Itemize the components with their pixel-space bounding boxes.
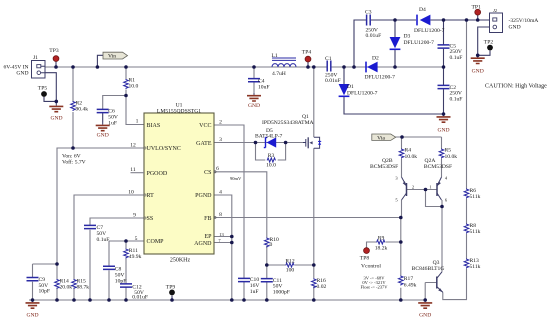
junction node Via label (400, 135, 404, 139)
wire C9 tap (33, 263, 58, 265)
wire R1 branch from rail (125, 67, 127, 79)
wire TP4 stub (307, 62, 309, 67)
wire Q3 emitter to R13 chain (443, 269, 467, 300)
svg-text:10.0: 10.0 (266, 162, 276, 168)
svg-text:CAUTION: High Voltage: CAUTION: High Voltage (485, 84, 547, 90)
svg-text:50V: 50V (97, 231, 107, 237)
svg-text:90mV: 90mV (230, 176, 242, 181)
wire R15 bottom (73, 288, 75, 301)
svg-text:100: 100 (286, 268, 295, 274)
ground at C4 (247, 93, 261, 109)
svg-text:R13: R13 (470, 258, 480, 264)
net label Via (mirror supply) (372, 134, 396, 141)
test point TP5 (38, 86, 48, 97)
capacitor C1 250V 0.01uF (series) (325, 56, 341, 84)
capacitor C5 250V 0.1uF (438, 43, 463, 61)
svg-text:Vcontrol: Vcontrol (361, 264, 381, 270)
svg-text:D3: D3 (404, 34, 411, 40)
svg-text:TP9: TP9 (166, 285, 176, 291)
junction dots bottom rail (31, 298, 35, 302)
wire RT net (74, 195, 144, 279)
svg-text:BCM53DSF: BCM53DSF (370, 164, 398, 170)
wire J1 pin2 to GND (41, 73, 56, 104)
junction node TP5/J1 gnd (55, 100, 59, 104)
svg-text:8: 8 (219, 212, 222, 218)
wire TP9 stub (171, 296, 173, 301)
wire R12 left (267, 264, 286, 266)
wire FB node down through R17 (400, 218, 402, 301)
op-amp U1 LM5155QDSSTG1 body (144, 103, 214, 264)
svg-text:49.9k: 49.9k (129, 254, 142, 260)
svg-text:DFLU1200-7: DFLU1200-7 (347, 90, 378, 96)
svg-text:6.49k: 6.49k (404, 283, 417, 289)
svg-text:3: 3 (219, 137, 222, 143)
svg-text:TP3: TP3 (49, 48, 59, 54)
svg-text:4.7uH: 4.7uH (272, 71, 286, 77)
svg-text:R12: R12 (285, 259, 295, 265)
wire TP1 stub (477, 15, 479, 20)
wire Q2 base tie (407, 190, 443, 207)
svg-text:EP: EP (204, 234, 212, 240)
connector J2 (490, 8, 503, 33)
junction nodes gate network (254, 141, 258, 145)
wire PGOOD stub (131, 172, 145, 174)
junction node C9 tap (55, 262, 59, 266)
svg-text:1000pF: 1000pF (273, 289, 290, 295)
net label Vin (input) (103, 52, 128, 59)
diode D1 DFLU1200-7 (339, 84, 378, 96)
ground at C2/C5 chain (437, 114, 451, 134)
svg-text:10uF: 10uF (258, 84, 270, 90)
wire charge-pump rail y=67 right of C1 (332, 66, 444, 68)
capacitor C6 50V 1uF (97, 108, 118, 126)
wire R3 parallel loop (256, 143, 286, 161)
svg-text:13: 13 (219, 232, 224, 237)
wire TP5 stub (44, 97, 56, 102)
svg-text:VCC: VCC (199, 123, 211, 129)
junction nodes Q2 mirror (424, 188, 428, 192)
junction nodes FB and R9 (399, 216, 403, 220)
resistor R1 10.0 (124, 78, 139, 90)
wire UVLO/SYNC net (57, 148, 144, 279)
wire R8 R6 segment (466, 199, 468, 224)
svg-text:GND: GND (472, 69, 484, 75)
capacitor C8 50V 10pF (103, 266, 126, 285)
wire R4 legs (401, 137, 403, 177)
capacitor C7 50V 0.1uF (84, 225, 109, 243)
wire SS net with C7 (90, 218, 144, 300)
wire D1 legs and line to GND (344, 67, 444, 114)
svg-text:10: 10 (128, 190, 134, 196)
wire C6 branch (103, 96, 126, 110)
capacitor C9 50V 10pF (27, 277, 51, 295)
test point TP4 (302, 50, 312, 62)
svg-text:DFLU1200-7: DFLU1200-7 (414, 28, 445, 34)
transistor Q1 IPD5N25S3438ATMA nmos (262, 114, 321, 148)
svg-text:AGND: AGND (194, 241, 212, 247)
svg-text:R9: R9 (378, 236, 385, 242)
wire switch node Q1 drain (313, 67, 315, 137)
svg-text:UVLO/SYNC: UVLO/SYNC (147, 146, 181, 152)
wire R16 bottom (313, 286, 315, 300)
svg-text:BAT54LP-7: BAT54LP-7 (255, 133, 283, 139)
svg-text:R17: R17 (404, 276, 414, 282)
svg-text:DFLU1200-7: DFLU1200-7 (365, 75, 396, 81)
resistor R6 511k (464, 188, 480, 200)
test point TP2 (484, 40, 494, 51)
svg-text:BC846BLT1G: BC846BLT1G (412, 266, 445, 272)
svg-text:1uF: 1uF (250, 289, 259, 295)
svg-text:IPD5N25S3438ATMA: IPD5N25S3438ATMA (262, 120, 314, 126)
diode D4 DFLU1200-7 (414, 7, 445, 34)
svg-text:TP4: TP4 (302, 50, 312, 56)
svg-text:0.01uF: 0.01uF (325, 78, 341, 84)
wire R14 bottom (56, 288, 58, 301)
svg-text:10pF: 10pF (39, 289, 51, 295)
wire J2 pin2 to GND (478, 27, 490, 55)
wire AGND stub (214, 242, 232, 244)
junction dots input rail (54, 65, 58, 69)
svg-text:5: 5 (135, 236, 138, 242)
resistor R14 20.0k (55, 279, 73, 291)
wire C6 to GND (102, 113, 104, 123)
ground at bottom rail right Q3 (418, 300, 432, 319)
svg-text:511k: 511k (470, 264, 481, 270)
test point TP8 (360, 248, 370, 262)
wire Via net label to mirror (396, 136, 442, 138)
svg-text:R5: R5 (445, 148, 452, 154)
svg-text:Vin: Vin (108, 54, 116, 60)
wire R13 R8 segment (466, 234, 468, 259)
capacitor C11 50V 1000pF (261, 278, 290, 296)
resistor R4 10.0k (399, 148, 417, 160)
ground at J1/TP5 (49, 104, 63, 122)
svg-text:9: 9 (133, 213, 136, 219)
svg-text:0: 0 (270, 242, 273, 248)
svg-text:DFLU1200-7: DFLU1200-7 (404, 40, 435, 46)
svg-text:R3: R3 (268, 153, 275, 159)
wire COMP net (109, 241, 144, 300)
svg-text:D1: D1 (347, 84, 354, 90)
wire VCC net to C10 (214, 125, 244, 300)
svg-text:0.1uF: 0.1uF (450, 55, 463, 61)
svg-text:C1: C1 (325, 56, 332, 62)
test point TP1 (472, 4, 482, 15)
wire EP stub (214, 236, 232, 238)
wire top charge pump line y=20 (354, 20, 490, 67)
wire R1 to BIAS and C6 node (126, 90, 144, 125)
svg-text:RT: RT (147, 193, 155, 199)
ground at C6 (96, 123, 110, 139)
test point TP3 (49, 48, 59, 61)
wire Q2A collector down to Q3 (441, 200, 443, 272)
svg-text:LM5155QDSSTG1: LM5155QDSSTG1 (157, 109, 201, 115)
svg-text:R4: R4 (405, 148, 412, 154)
wire bottom ground rail y=300 (29, 299, 425, 301)
svg-text:-325V/10mA: -325V/10mA (509, 18, 539, 24)
wire R10 to R12 node and C11 (266, 246, 268, 300)
inductor L1 4.7uH (272, 53, 297, 77)
junction node J2 gnd (476, 54, 480, 58)
svg-text:10.0: 10.0 (129, 84, 139, 90)
wire D3 legs (394, 20, 396, 67)
svg-text:TP5: TP5 (38, 86, 48, 92)
svg-text:D2: D2 (372, 55, 379, 61)
resistor R11 49.9k (124, 248, 142, 260)
resistor R9 18.2k (375, 236, 388, 252)
capacitor C10 16V 1uF (238, 277, 259, 295)
svg-text:Via: Via (377, 135, 385, 141)
svg-text:R8: R8 (470, 223, 477, 229)
wire R2 lower to UVLO node (72, 112, 74, 148)
svg-text:Float -> -237V: Float -> -237V (360, 285, 388, 290)
svg-text:R6: R6 (470, 188, 477, 194)
svg-text:0.02: 0.02 (317, 284, 327, 290)
diode D5 BAT54LP-7 schottky (255, 128, 283, 148)
svg-text:GATE: GATE (196, 141, 212, 147)
wire R6 top to output line (466, 20, 468, 189)
svg-text:L1: L1 (272, 53, 278, 59)
svg-text:GND: GND (97, 133, 109, 139)
diode D2 DFLU1200-7 (365, 55, 396, 80)
wire main input rail Vin y=67 (41, 66, 327, 68)
svg-text:SS: SS (147, 216, 154, 222)
transistor Q2B BCM53DSF pnp (370, 158, 414, 203)
wire PGND net (214, 195, 232, 300)
svg-text:D4: D4 (419, 7, 426, 13)
svg-text:GND: GND (16, 71, 28, 77)
svg-text:PGND: PGND (195, 193, 212, 199)
svg-text:GND: GND (248, 103, 260, 109)
wire Q1 source to R16 (313, 148, 315, 278)
capacitor C3 250V 0.01uF (365, 10, 381, 40)
transistor Q3 BC846BLT1G npn (412, 260, 445, 292)
junction nodes EP AGND (230, 235, 234, 239)
svg-text:1: 1 (136, 119, 139, 125)
svg-text:J1: J1 (33, 55, 38, 61)
ground at J2/TP2 (471, 55, 485, 74)
svg-text:CS: CS (204, 170, 211, 176)
ground at bottom rail left (26, 300, 40, 319)
svg-text:PGOOD: PGOOD (147, 171, 168, 177)
capacitor C4 10uF (248, 79, 270, 91)
diode D3 DFLU1200-7 (390, 34, 435, 50)
svg-text:0.1uF: 0.1uF (97, 237, 110, 243)
junction node R2/UVLO (71, 146, 75, 150)
wire FB net (214, 217, 401, 219)
wire R9 TP8 (367, 242, 401, 248)
resistor R3 10.0 (266, 153, 276, 168)
svg-text:511k: 511k (470, 229, 481, 235)
wire TP3 stub (55, 61, 57, 67)
svg-text:C3: C3 (365, 10, 372, 16)
svg-text:R11: R11 (129, 248, 138, 254)
wire C5 C2 chain (443, 20, 445, 114)
svg-text:1: 1 (429, 184, 431, 189)
resistor R16 0.02 (311, 278, 326, 290)
svg-text:4: 4 (219, 190, 222, 196)
svg-text:10.0k: 10.0k (445, 154, 458, 160)
resistor R12 100 (285, 259, 295, 274)
wire C4 branch (253, 67, 255, 93)
svg-text:0.01uF: 0.01uF (132, 294, 148, 300)
svg-text:0.1uF: 0.1uF (450, 96, 463, 102)
connector J1 (32, 55, 46, 78)
resistor R13 511k (464, 258, 480, 270)
resistor R8 511k (464, 223, 480, 235)
svg-text:511k: 511k (470, 194, 481, 200)
svg-text:GND: GND (26, 313, 38, 319)
capacitor C2 250V 0.1uF (438, 85, 463, 103)
transistor Q2A BCM53DSF pnp (424, 158, 452, 203)
capacitor C12 50V 0.01uF (120, 284, 148, 301)
svg-text:BIAS: BIAS (147, 123, 161, 129)
wire CS net down to R10 (214, 172, 267, 238)
wire Vin net label drop (97, 55, 103, 67)
wire R5 legs (441, 137, 443, 177)
wire C9 vertical (32, 264, 34, 300)
svg-text:2: 2 (412, 184, 414, 189)
svg-text:GND: GND (50, 116, 62, 122)
wire R12 right to sense node (295, 264, 314, 266)
svg-text:20.0k: 20.0k (60, 285, 73, 291)
resistor R10 0 (264, 237, 279, 248)
svg-text:TP8: TP8 (360, 255, 370, 261)
svg-text:GND: GND (419, 313, 431, 319)
svg-text:18.2k: 18.2k (375, 246, 388, 252)
svg-text:BCM53DSF: BCM53DSF (424, 164, 452, 170)
junction node R1/C6/BIAS (124, 94, 128, 98)
svg-text:COMP: COMP (147, 239, 165, 245)
resistor R15 88.7k (72, 279, 90, 291)
svg-text:2: 2 (219, 120, 222, 126)
test point TP9 (166, 285, 176, 296)
svg-text:88.7k: 88.7k (77, 285, 90, 291)
svg-text:50V: 50V (115, 273, 125, 279)
svg-text:TP2: TP2 (484, 40, 494, 46)
wire Q2B collector to FB node (401, 200, 403, 218)
wire Q3 base drop (425, 283, 437, 301)
wire R11 C12 branch (125, 241, 127, 300)
junction dots top line (393, 18, 397, 22)
svg-text:GND: GND (509, 25, 521, 31)
svg-text:J2: J2 (493, 8, 498, 13)
wire TP2 stub (478, 51, 490, 56)
svg-text:TP1: TP1 (472, 4, 482, 10)
resistor R2 90.4k (71, 101, 89, 113)
svg-text:250KHz: 250KHz (170, 258, 191, 264)
junction node D1 GND line (442, 112, 446, 116)
svg-text:Voff: 5.7V: Voff: 5.7V (62, 159, 86, 166)
svg-text:0.01uF: 0.01uF (366, 33, 382, 39)
resistor R5 10.0k (439, 148, 457, 160)
svg-text:6: 6 (216, 166, 219, 172)
svg-text:10.0k: 10.0k (405, 154, 418, 160)
resistor R17 6.49k (398, 276, 416, 289)
junction dots charge pump rail (342, 65, 346, 69)
svg-text:12: 12 (130, 143, 136, 149)
wire R2 upper (72, 67, 74, 101)
junction node COMP/R11 (124, 239, 128, 243)
svg-text:FB: FB (204, 216, 211, 222)
junction nodes CS sense (265, 263, 269, 267)
svg-text:90.4k: 90.4k (76, 107, 89, 113)
wire GATE net (214, 142, 306, 144)
svg-text:GND: GND (437, 128, 449, 134)
